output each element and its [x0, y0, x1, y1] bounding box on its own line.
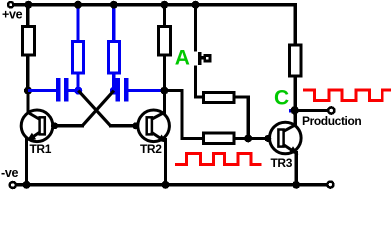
wire bottom supply rail -ve — [13, 183, 327, 186]
node TR2 emitter on rail — [161, 181, 169, 189]
node TR2 collector junction — [160, 87, 168, 95]
wire switch branch from rail — [194, 4, 197, 52]
wire blue base resistor 1 bottom — [76, 73, 79, 92]
resistor TR2-to-TR3 (horizontal lower) — [204, 133, 234, 143]
wire R2 bottom to node — [163, 57, 166, 92]
node resistor junction — [244, 134, 252, 142]
wire blue base resistor 1 top — [76, 4, 79, 42]
svg-text:-ve: -ve — [1, 166, 19, 180]
wire upper-to-lower vertical — [247, 95, 250, 140]
transistor TR2 — [138, 110, 170, 143]
node rail junction blue R2 — [110, 1, 118, 9]
capacitor C1 — [56, 78, 60, 102]
svg-text:C: C — [274, 86, 289, 109]
svg-text:Production: Production — [302, 114, 361, 128]
node TR3 emitter on rail — [292, 181, 300, 189]
node rail junction blue R1 — [74, 1, 82, 9]
wire TR3 collector — [294, 108, 297, 127]
wire cross-couple C2 node to TR1 base (diagonal) — [82, 91, 114, 126]
node rail junction switch branch — [192, 1, 200, 9]
node rail junction R1 — [24, 1, 32, 9]
terminal -ve — [10, 182, 16, 188]
wire upper resistor right — [235, 95, 250, 98]
svg-text:TR1: TR1 — [30, 142, 52, 156]
transistor TR1 — [21, 110, 53, 142]
terminal rail right end — [327, 182, 333, 188]
node C junction — [291, 106, 299, 114]
wire resistor to node C — [294, 78, 297, 113]
node C1/R base junction (blue) — [74, 87, 82, 95]
node TR2 base dot — [132, 122, 139, 129]
switch push-to-make contact bar — [198, 52, 202, 65]
svg-text:TR3: TR3 — [271, 156, 293, 170]
waveform at TR2 collector (red square wave) — [175, 153, 262, 164]
wire lower resistor right — [235, 137, 249, 140]
svg-text:+ve: +ve — [2, 7, 23, 21]
terminal +ve — [8, 2, 13, 7]
svg-text:TR2: TR2 — [140, 142, 162, 156]
wire top rail right corner down — [294, 4, 297, 44]
terminal Production — [328, 107, 334, 113]
wire TR1 collector — [26, 90, 29, 114]
node rail junction R2 — [160, 1, 168, 9]
wire TR3 base — [247, 137, 271, 140]
switch button cap — [205, 56, 210, 61]
wire cross-couple C1 node to TR2 base (diagonal) — [78, 91, 110, 126]
wire TR1 emitter — [25, 138, 28, 186]
wire TR1 base horizontal — [53, 124, 84, 127]
wire R1 top — [26, 4, 29, 26]
node TR1 emitter on rail — [23, 181, 31, 189]
resistor base R (blue, left) — [73, 42, 84, 74]
node TR1 base dot — [51, 122, 58, 129]
wire upper resistor left — [194, 95, 204, 98]
transistor TR3 — [270, 122, 302, 154]
wire TR2 emitter — [164, 138, 167, 186]
wire TR2 collector to lower resistor (vertical) — [180, 89, 183, 140]
wire TR2 collector — [163, 90, 166, 115]
capacitor C2 — [116, 78, 120, 102]
wire TR2 collector to lower resistor (top run) — [164, 89, 184, 92]
wire blue base resistor 2 bottom — [112, 73, 115, 92]
wire switch to resistor — [194, 66, 197, 99]
capacitor C1 right wire (blue) — [68, 89, 79, 92]
wire blue base resistor 2 top — [112, 4, 115, 42]
wire TR2 base horizontal — [109, 124, 138, 127]
resistor base R (blue, right) — [109, 42, 120, 74]
blue mark at node C — [289, 109, 292, 113]
resistor TR3 collector load — [290, 45, 302, 76]
wire R1 bottom to node — [26, 57, 29, 92]
capacitor C2 right wire (blue) — [128, 89, 165, 92]
wire R2 top — [163, 4, 166, 26]
resistor switch branch (horizontal upper) — [204, 92, 234, 102]
switch button stem — [202, 56, 206, 59]
wire lower resistor left — [180, 137, 204, 140]
resistor R2 (TR2 collector load) — [159, 27, 171, 56]
wire node C to production terminal — [294, 109, 328, 112]
resistor R1 (TR1 collector load) — [22, 27, 34, 56]
waveform at node C (red square wave) — [303, 90, 391, 100]
node C2/R base junction (blue) — [110, 87, 118, 95]
node TR3 base dot — [264, 135, 271, 142]
capacitor C1 left wire (blue) — [28, 89, 57, 92]
svg-text:A: A — [175, 46, 190, 69]
wire top supply rail +ve — [12, 3, 297, 6]
wire TR3 emitter — [295, 151, 298, 186]
node TR1 collector junction — [24, 87, 32, 95]
